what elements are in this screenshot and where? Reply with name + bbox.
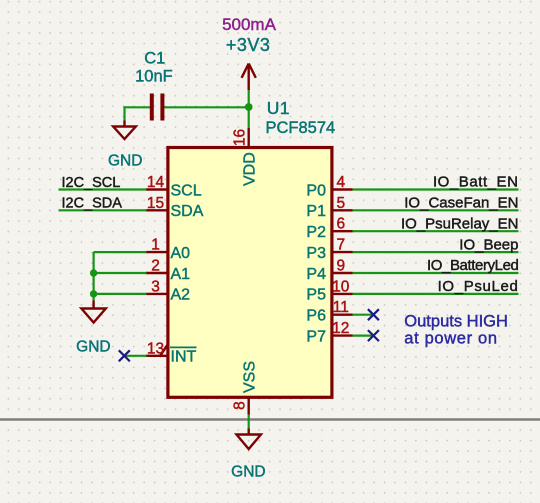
svg-text:+3V3: +3V3: [226, 35, 271, 55]
svg-text:PCF8574: PCF8574: [266, 119, 336, 137]
wire I2C_SDA: [59, 209, 147, 211]
sheet border line: [0, 418, 540, 421]
wire vertical A bus: [92, 252, 94, 300]
pin 10 P5: [332, 293, 353, 295]
svg-text:A1: A1: [171, 266, 191, 283]
svg-text:IO_PsuRelay_EN: IO_PsuRelay_EN: [401, 215, 519, 232]
wire P4: [353, 272, 519, 274]
svg-text:13: 13: [147, 340, 164, 357]
pin 16 VDD: [247, 128, 249, 148]
capacitor C1: [152, 94, 163, 121]
pin 15 SDA: [146, 209, 167, 211]
wire P5: [353, 293, 519, 295]
wire P6 stub: [353, 314, 374, 316]
pin 1 A0: [146, 251, 167, 253]
svg-text:IO_CaseFan_EN: IO_CaseFan_EN: [404, 195, 518, 212]
svg-text:Outputs HIGH: Outputs HIGH: [404, 312, 508, 330]
svg-text:IO_PsuLed: IO_PsuLed: [438, 278, 519, 295]
junction: [90, 269, 97, 276]
svg-text:9: 9: [336, 258, 345, 275]
svg-text:SDA: SDA: [171, 203, 204, 220]
svg-text:P2: P2: [306, 224, 326, 241]
pin 5 P1: [332, 209, 353, 211]
svg-text:500mA: 500mA: [222, 15, 277, 34]
svg-text:P7: P7: [306, 328, 326, 345]
svg-text:3: 3: [151, 278, 160, 295]
wire INT: [124, 355, 146, 357]
wire P2: [353, 230, 519, 232]
svg-text:2: 2: [151, 258, 160, 275]
wire I2C_SCL: [59, 188, 147, 190]
pin 9 P4: [332, 272, 353, 274]
pin 12 P7: [332, 334, 353, 336]
pin 6 P2: [332, 230, 353, 232]
no-connect X: [368, 309, 379, 320]
svg-text:11: 11: [333, 299, 349, 316]
svg-text:P0: P0: [306, 182, 326, 199]
svg-text:VDD: VDD: [242, 152, 259, 186]
svg-text:12: 12: [332, 320, 349, 337]
junction: [245, 103, 253, 111]
wire P1: [353, 209, 519, 211]
svg-text:GND: GND: [108, 153, 142, 170]
wire: [164, 106, 249, 108]
wire A2: [94, 293, 147, 295]
svg-text:P1: P1: [306, 203, 326, 220]
svg-text:I2C_SDA: I2C_SDA: [62, 196, 123, 212]
ground: [81, 301, 105, 323]
svg-text:A0: A0: [171, 245, 191, 262]
svg-text:GND: GND: [76, 339, 110, 356]
svg-text:5: 5: [336, 195, 345, 212]
wire: [125, 106, 151, 108]
svg-text:P3: P3: [306, 245, 326, 262]
svg-text:7: 7: [336, 237, 345, 254]
svg-text:P6: P6: [306, 308, 326, 325]
wire A1: [94, 272, 147, 274]
svg-text:A2: A2: [171, 287, 191, 304]
svg-text:15: 15: [147, 195, 164, 212]
svg-text:I2C_SCL: I2C_SCL: [62, 175, 121, 191]
pin 14 SCL: [146, 188, 167, 190]
svg-text:6: 6: [336, 216, 345, 233]
wire VSS to ground: [248, 415, 250, 429]
svg-text:SCL: SCL: [171, 182, 202, 199]
op-amp U1 body: [168, 148, 332, 398]
no-connect X: [119, 350, 130, 361]
wire P3: [353, 251, 519, 253]
wire P7 stub: [353, 335, 374, 337]
svg-text:10nF: 10nF: [135, 68, 173, 86]
svg-text:GND: GND: [231, 463, 265, 480]
svg-text:8: 8: [232, 401, 249, 410]
wire: [123, 106, 125, 120]
ground: [237, 429, 261, 450]
ground: [113, 121, 136, 140]
no-connect X: [368, 330, 379, 341]
pin 2 A1: [146, 272, 167, 274]
pin 7 P3: [332, 251, 353, 253]
svg-text:10: 10: [332, 278, 350, 295]
wire P0: [353, 188, 519, 190]
junction: [90, 290, 97, 297]
pin 8 VSS: [247, 397, 249, 414]
svg-text:U1: U1: [267, 98, 290, 118]
svg-text:16: 16: [232, 129, 249, 146]
pin 4 P0: [332, 188, 353, 190]
svg-text:VSS: VSS: [242, 361, 259, 393]
svg-text:IO_BatteryLed: IO_BatteryLed: [427, 257, 519, 274]
svg-text:4: 4: [336, 174, 345, 191]
svg-text:at power on: at power on: [404, 329, 497, 347]
svg-text:14: 14: [147, 174, 165, 191]
svg-text:IO_Beep: IO_Beep: [459, 236, 518, 253]
wire: [248, 88, 250, 128]
wire A0: [94, 251, 147, 253]
svg-text:INT: INT: [171, 349, 197, 366]
power +3V3: [242, 64, 256, 91]
pin 11 P6: [332, 314, 353, 316]
svg-text:IO_Batt_EN: IO_Batt_EN: [433, 174, 519, 191]
svg-text:C1: C1: [144, 49, 165, 67]
svg-text:1: 1: [151, 237, 160, 254]
svg-text:P5: P5: [306, 287, 326, 304]
pin 13 INT: [146, 355, 167, 357]
pin 3 A2: [146, 293, 167, 295]
svg-text:P4: P4: [306, 266, 326, 283]
